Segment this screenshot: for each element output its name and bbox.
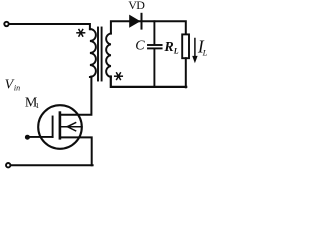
svg-text:VD: VD [128,0,145,12]
input terminal + (top-left) [4,22,8,26]
capacitor C [153,21,155,44]
svg-text:R: R [163,40,173,55]
wire: primary bottom down to M1 drain [60,77,91,115]
wire: top input rail to primary top [9,24,90,29]
svg-text:1: 1 [35,101,39,110]
current arrow IL [194,39,196,58]
M1 substrate arrow [61,123,82,131]
svg-text:C: C [135,38,145,53]
M1 channel bar [59,113,62,139]
resistor RL [182,34,189,58]
gate drive terminal dot [25,135,30,140]
wire: output bottom rail [111,77,186,87]
svg-text:L: L [202,47,208,57]
wire: bottom input rail [11,164,92,166]
input terminal - (bottom-left) [6,163,10,167]
transformer primary winding [90,29,96,77]
wire: gate lead from drive terminal [30,136,53,138]
M1 source lead and wire to bottom rail [61,137,92,165]
M1 gate bar [52,117,54,137]
polarity mark (asterisk) secondary [115,73,123,80]
svg-text:in: in [14,84,20,93]
transformer core [97,28,99,81]
polarity mark (asterisk) primary [77,30,85,37]
wire: secondary top to output top rail [111,21,186,34]
transformer secondary winding [106,33,111,77]
diode VD [129,15,140,28]
transistor M1 body circle [38,105,82,149]
svg-text:L: L [173,46,179,55]
